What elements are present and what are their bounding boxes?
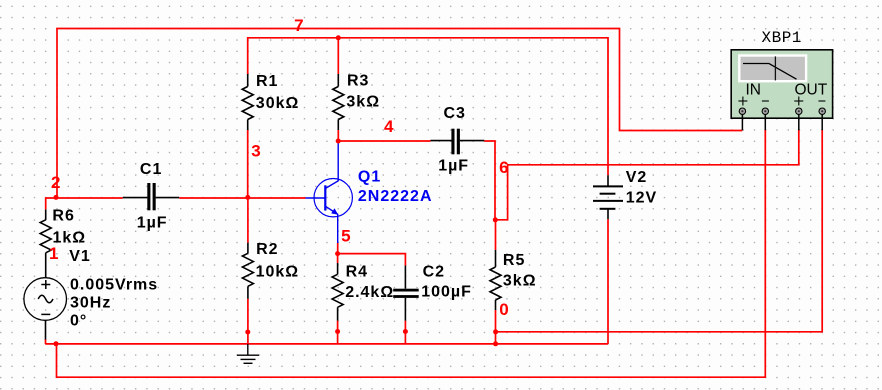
wire R5 bottom node 0 (495, 310, 497, 344)
svg-text:30kΩ: 30kΩ (256, 95, 300, 112)
svg-text:6: 6 (499, 158, 509, 177)
wire main ground rail (45, 343, 608, 345)
wire node 4 collector to C3 (338, 140, 430, 142)
junction dot V1 rail (54, 341, 59, 346)
terminal IN- (762, 108, 768, 130)
node label 2 (51, 173, 61, 192)
svg-text:R4: R4 (346, 263, 368, 280)
wire V1 bottom red stub (45, 339, 47, 344)
node label 5 (341, 226, 351, 245)
svg-text:1µF: 1µF (137, 214, 168, 231)
node 4 junction dot (336, 139, 341, 144)
node label 3 (251, 142, 261, 161)
battery V2 (593, 175, 623, 219)
wire node3 to R2 (247, 197, 249, 242)
node 2 junction dot (54, 195, 59, 200)
wire emitter to node 5 (337, 243, 339, 254)
junction dot node 0 (493, 329, 498, 334)
svg-text:IN: IN (746, 82, 762, 99)
node 6 junction dot (493, 217, 498, 222)
svg-text:OUT: OUT (795, 82, 828, 99)
svg-text:Q1: Q1 (358, 169, 381, 186)
svg-text:2.4kΩ: 2.4kΩ (345, 284, 394, 301)
terminal OUT+ (796, 108, 802, 130)
svg-text:10kΩ: 10kΩ (256, 264, 300, 281)
resistor R5 (490, 250, 501, 310)
svg-text:R2: R2 (256, 241, 278, 258)
svg-text:1µF: 1µF (438, 157, 469, 174)
wire V2 bottom to rail (607, 219, 609, 344)
svg-text:0: 0 (499, 300, 509, 319)
svg-text:2N2222A: 2N2222A (358, 188, 433, 205)
svg-text:R6: R6 (52, 207, 74, 224)
resistor R6 (40, 210, 51, 278)
wire node 7 VCC rail (248, 38, 608, 176)
wire R1 bottom to node 3 (247, 130, 249, 197)
svg-text:R1: R1 (256, 73, 278, 90)
Bode plotter XBP1 (731, 50, 832, 118)
junction dot R4 ground (335, 329, 340, 334)
wire C1 to Q1 base (node 3) (179, 197, 305, 199)
svg-text:1: 1 (49, 244, 59, 263)
svg-text:4: 4 (384, 117, 394, 136)
wire R4 bottom to ground rail (337, 321, 339, 344)
svg-text:2: 2 (51, 173, 61, 192)
node label 4 (384, 117, 394, 136)
svg-text:R3: R3 (347, 73, 369, 90)
junction dot C2 ground (403, 329, 408, 334)
resistor R3 (333, 74, 344, 130)
wire R4 top lead (337, 254, 339, 263)
capacitor C1 (123, 183, 180, 210)
node label 6 (499, 158, 509, 177)
wire node 6 to Bode OUT+ (495, 130, 799, 220)
svg-text:XBP1: XBP1 (762, 29, 802, 47)
Q1 emitter arrow (331, 208, 338, 215)
wire node 0 to Bode OUT- (496, 130, 823, 332)
svg-text:C2: C2 (423, 263, 445, 280)
svg-text:100µF: 100µF (421, 284, 472, 301)
wire node 5 to C2 (338, 254, 406, 266)
wire C2 bottom to ground rail (404, 321, 406, 344)
svg-text:V2: V2 (626, 169, 648, 186)
svg-text:12V: 12V (626, 189, 657, 206)
AC source V1 (24, 278, 67, 340)
svg-text:30Hz: 30Hz (70, 294, 111, 311)
node 7 junction dot (336, 35, 341, 40)
resistor R1 (242, 74, 253, 130)
capacitor C2 (393, 266, 419, 321)
terminal IN+ (739, 108, 745, 130)
wire R3 top lead (337, 38, 339, 74)
resistor R2 (242, 243, 253, 299)
svg-text:V1: V1 (69, 248, 91, 265)
IN + mark (738, 97, 747, 106)
svg-text:0.005Vrms: 0.005Vrms (70, 276, 158, 293)
svg-text:3kΩ: 3kΩ (503, 273, 537, 290)
svg-text:5: 5 (341, 226, 351, 245)
svg-text:R5: R5 (503, 252, 525, 269)
svg-text:3: 3 (251, 142, 261, 161)
resistor R4 (332, 263, 343, 321)
wire node2 to Bode IN+ (top rail) (57, 29, 742, 198)
wire lower rail to Bode IN- (57, 130, 766, 378)
wire R2 bottom to ground rail (247, 299, 249, 344)
wire node 2 horizontal to C1 (46, 198, 123, 210)
terminal OUT- (819, 108, 825, 130)
capacitor C3 (431, 129, 485, 155)
wire node6 to R5 (495, 220, 497, 250)
node 5 junction dot (335, 251, 340, 256)
node label 7 (294, 16, 304, 35)
node label 1 (49, 244, 59, 263)
wire C3 right to node 6 (484, 141, 495, 220)
svg-text:3kΩ: 3kΩ (346, 94, 380, 111)
junction dot R2 ground (245, 330, 250, 335)
wire R3 bottom to node 4 (337, 130, 339, 141)
junction dot R5 rail (493, 341, 498, 346)
OUT + mark (794, 97, 803, 106)
node label 0 (499, 300, 509, 319)
OUT - mark (818, 100, 825, 102)
svg-text:7: 7 (294, 16, 304, 35)
ground (237, 344, 259, 363)
svg-text:0°: 0° (70, 312, 87, 329)
IN - mark (762, 100, 769, 102)
svg-text:C3: C3 (444, 105, 466, 122)
node 3 junction dot (245, 195, 250, 200)
transistor Q1 (306, 141, 353, 243)
svg-text:C1: C1 (140, 161, 162, 178)
